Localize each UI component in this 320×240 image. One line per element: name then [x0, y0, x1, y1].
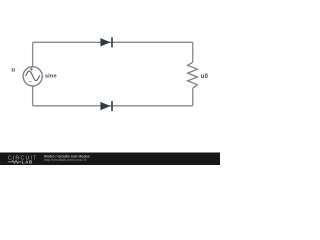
diode D2 cathode bar [111, 101, 113, 111]
svg-text:u0: u0 [201, 74, 209, 80]
wire left rail lower [32, 86, 34, 106]
resistor R1 zigzag [188, 62, 198, 88]
svg-text:http://circuitlab.com/cxz4c7b: http://circuitlab.com/cxz4c7b [44, 158, 87, 162]
svg-text:LAB: LAB [22, 160, 33, 165]
diode D2 (bottom) triangle [100, 102, 110, 110]
wire right rail lower [192, 88, 194, 105]
CircuitLab logo wire+zigzag [8, 161, 21, 164]
voltage source plus sign [30, 68, 33, 71]
svg-text:u: u [11, 67, 15, 73]
wire left rail upper [32, 42, 34, 66]
diode D1 (top) triangle [100, 38, 110, 46]
voltage source minus sign [29, 81, 32, 83]
svg-text:sine: sine [45, 73, 57, 79]
voltage source sine waveform [26, 71, 40, 81]
footer watermark bar [0, 153, 220, 166]
wire top rail [33, 41, 193, 43]
wire right rail upper [192, 42, 194, 62]
diode D1 cathode bar [111, 37, 113, 47]
wire bottom rail [33, 105, 193, 107]
voltage source V1 circle [23, 67, 42, 86]
